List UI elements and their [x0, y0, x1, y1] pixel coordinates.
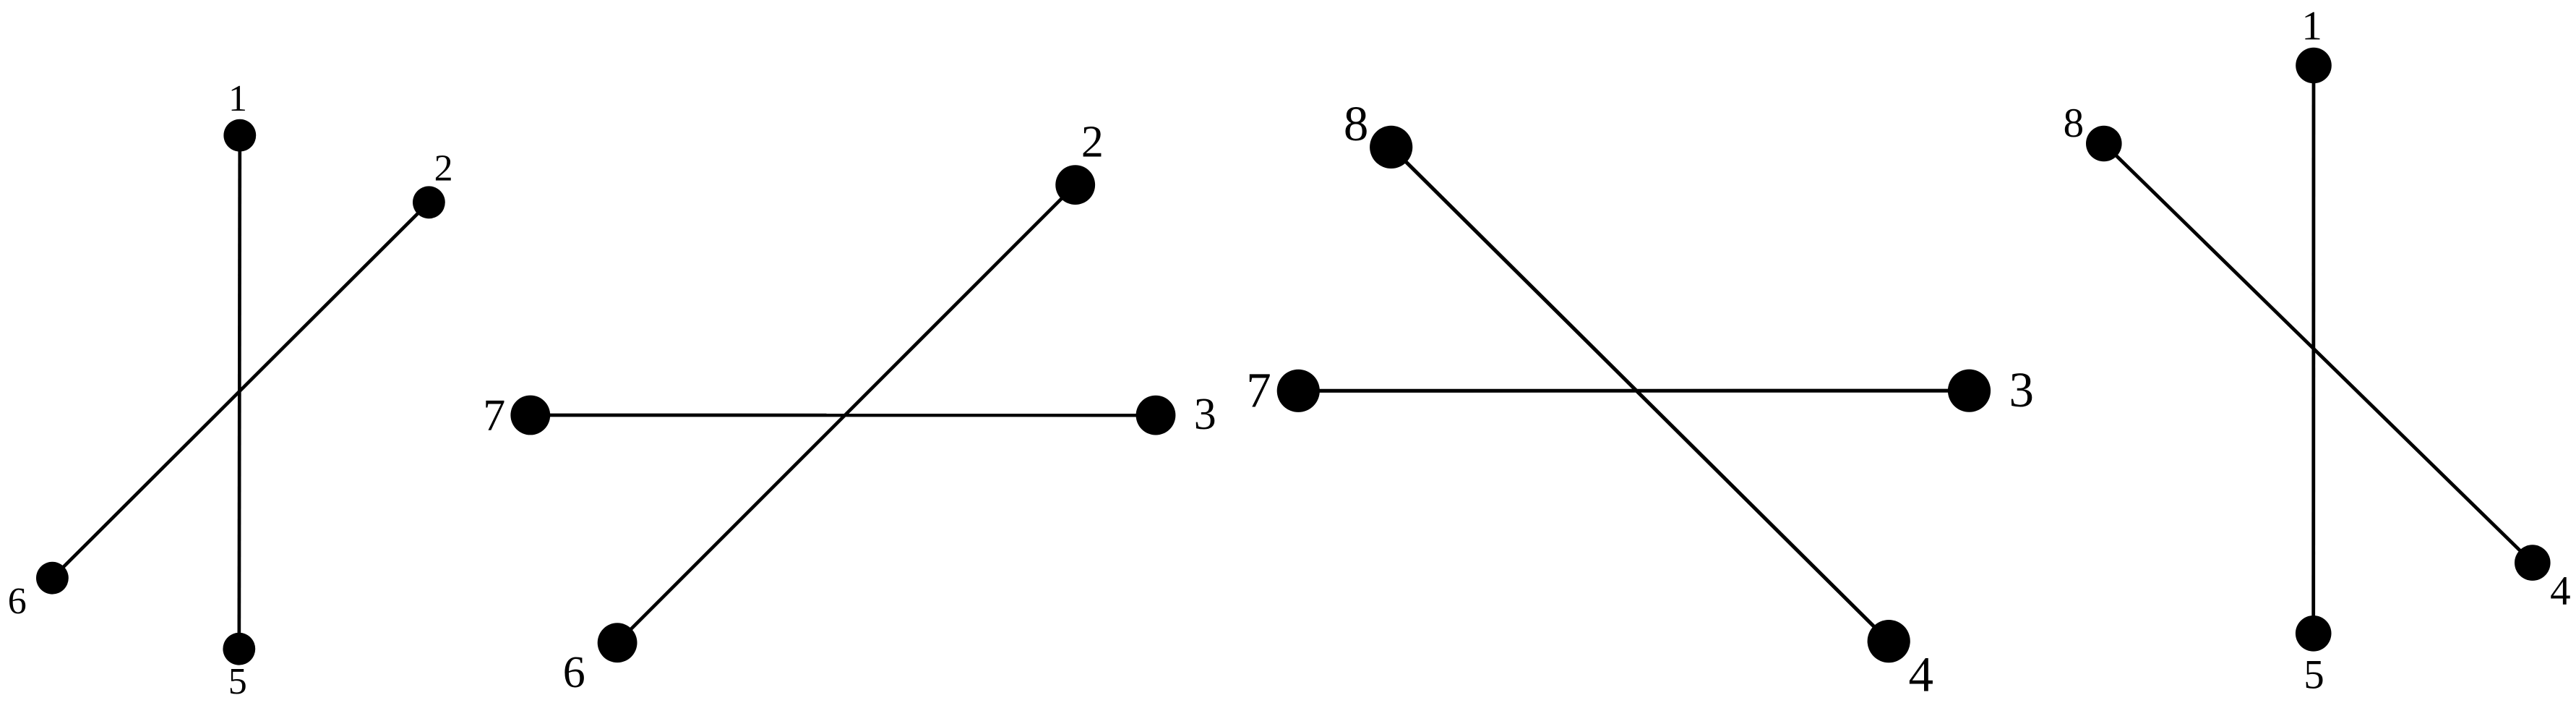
svg-text:5: 5	[2304, 652, 2324, 698]
svg-text:4: 4	[2550, 568, 2571, 614]
svg-text:2: 2	[434, 148, 453, 189]
svg-text:7: 7	[483, 391, 505, 440]
svg-text:6: 6	[8, 581, 27, 622]
svg-text:2: 2	[1081, 118, 1104, 167]
svg-text:5: 5	[228, 661, 247, 702]
svg-text:3: 3	[1194, 390, 1216, 439]
svg-text:3: 3	[2009, 362, 2034, 417]
svg-text:4: 4	[1909, 647, 1934, 702]
svg-text:8: 8	[1344, 96, 1369, 151]
svg-text:8: 8	[2064, 101, 2085, 146]
svg-text:1: 1	[2301, 3, 2322, 48]
svg-text:1: 1	[228, 78, 247, 119]
svg-text:7: 7	[1246, 363, 1271, 418]
svg-text:6: 6	[563, 648, 585, 697]
